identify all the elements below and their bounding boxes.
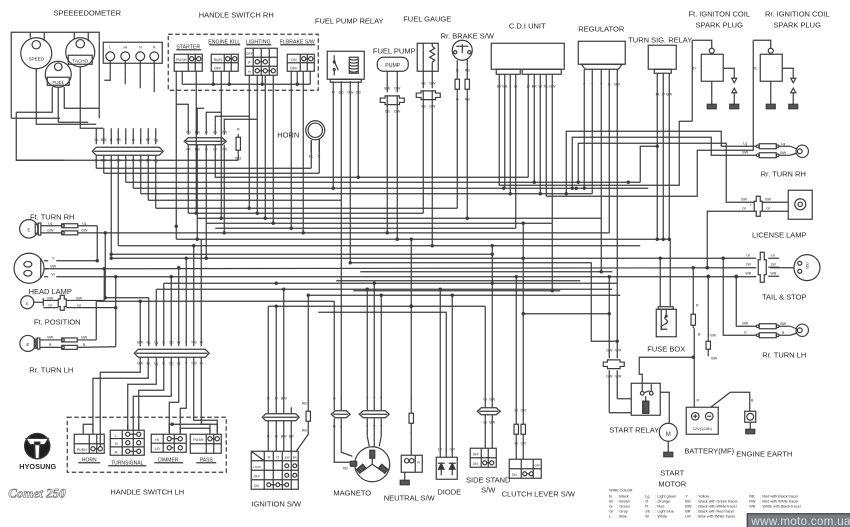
- speedometer enclosure: [11, 32, 99, 118]
- wire handle switch RH internal bus: [181, 71, 183, 84]
- wire diode LY feed: [439, 289, 441, 457]
- vertical main L: [140, 155, 142, 194]
- wire FPR DB drop: [357, 81, 359, 177]
- svg-text:L: L: [109, 45, 111, 49]
- connector front position: [58, 295, 66, 310]
- switch DIMMER: [151, 434, 186, 452]
- wire GWWR GW bus: [523, 313, 609, 315]
- svg-text:OFF: OFF: [254, 474, 260, 478]
- wire start relay conns: [617, 398, 631, 400]
- svg-text:SPEED: SPEED: [28, 56, 44, 61]
- svg-text:S/W: S/W: [481, 485, 496, 494]
- wire fuse feed 1: [659, 258, 661, 307]
- wire fuel gauge GW drop: [431, 100, 433, 246]
- svg-text:NEUTRAL S/W: NEUTRAL S/W: [384, 493, 436, 502]
- switch PASS: [190, 434, 221, 453]
- wire TSR TA drop: [656, 73, 658, 239]
- wire magneto Y3 riser: [380, 295, 382, 410]
- svg-text:YB: YB: [116, 138, 121, 142]
- wire fuse feed 2: [669, 239, 671, 307]
- wire handle RH starter drop 176: [175, 71, 177, 239]
- svg-text:RB: RB: [465, 68, 471, 72]
- wire bus y182 to y146 riser: [640, 146, 657, 182]
- battery: [686, 407, 718, 434]
- svg-text:BW: BW: [765, 197, 771, 201]
- svg-text:+: +: [750, 203, 752, 207]
- handle switch RH dashed enclosure: [168, 34, 318, 90]
- turn signal relay: [648, 45, 676, 69]
- svg-text:HEAD LAMP: HEAD LAMP: [29, 287, 72, 296]
- connector rear turn LH left terminals: [62, 338, 78, 342]
- wire bus y297.5 BL: [105, 297, 149, 299]
- svg-text:HANDLE SWITCH RH: HANDLE SWITCH RH: [199, 10, 274, 19]
- svg-text:BATTERY(MF): BATTERY(MF): [684, 446, 734, 455]
- svg-text:BW: BW: [685, 504, 692, 508]
- svg-text:G: G: [609, 504, 612, 508]
- svg-text:Rr. BRAKE S/W: Rr. BRAKE S/W: [441, 31, 495, 40]
- svg-text:TURN SIG. RELAY: TURN SIG. RELAY: [628, 35, 692, 44]
- svg-text:BW: BW: [741, 197, 747, 201]
- svg-text:START: START: [660, 468, 684, 477]
- wire fuel pump drops: [386, 71, 388, 92]
- svg-text:W: W: [52, 272, 56, 276]
- wire magneto Y2 riser: [373, 283, 375, 410]
- ignition coil Ft: [701, 54, 723, 81]
- svg-text:WB: WB: [770, 271, 776, 275]
- wire bus y306: [268, 305, 485, 307]
- wire ignition R feed: [267, 306, 269, 413]
- wire CDI Gr drop: [515, 74, 517, 228]
- wire fuse BW2 top: [707, 276, 709, 338]
- fuel pump relay: [327, 51, 364, 79]
- wire rear brake drops: [456, 60, 458, 76]
- svg-text:Comet 250: Comet 250: [8, 485, 66, 500]
- svg-text:: Black with Red tracer: : Black with Red tracer: [696, 509, 735, 513]
- wire bundle above main connector 18P: [95, 128, 97, 144]
- svg-text:ON: ON: [473, 462, 478, 466]
- wire ignition BW feed: [283, 289, 285, 413]
- svg-text:LW: LW: [771, 262, 777, 266]
- wire speedometer internal harness: [29, 32, 31, 38]
- wire coil Ft primary: [692, 40, 712, 48]
- svg-text:BW: BW: [47, 296, 53, 300]
- wire ignition O feed: [275, 306, 277, 413]
- svg-text:LW: LW: [685, 514, 691, 518]
- svg-text:HYOSUNG: HYOSUNG: [19, 462, 56, 471]
- wire strip W riser: [178, 268, 180, 347]
- svg-text:E: E: [26, 301, 29, 306]
- svg-text:www.moto.com.ua: www.moto.com.ua: [750, 514, 850, 527]
- wire strip BL to horn LH: [93, 357, 148, 432]
- resistor inline neutral: [410, 410, 412, 413]
- svg-text:REGULATOR: REGULATOR: [578, 24, 625, 33]
- wire bus y208 Lg brake: [156, 207, 458, 209]
- wire regulator R drop: [608, 69, 610, 233]
- gauge TACHO: [66, 38, 95, 67]
- svg-text:G: G: [333, 424, 336, 428]
- vertical main Lg: [155, 155, 157, 208]
- svg-text:HANDLE SWITCH LH: HANDLE SWITCH LH: [110, 487, 184, 496]
- wire strip W to dimmer HI: [169, 357, 179, 432]
- regulator: [578, 41, 625, 64]
- svg-text:RW: RW: [749, 499, 756, 503]
- svg-text:BG: BG: [685, 499, 691, 503]
- svg-text:: Light green: : Light green: [655, 494, 676, 498]
- wire fuse RW top: [692, 268, 694, 312]
- wire bus y160 R-resistor: [16, 159, 238, 161]
- svg-text:BR: BR: [293, 455, 297, 459]
- wire handle RH brake drop 291: [290, 71, 292, 228]
- svg-text:RB: RB: [302, 428, 308, 432]
- fuse inline clutch 2: [522, 421, 524, 424]
- connector 18P main: [92, 147, 163, 155]
- svg-text:Ft. TURN RH: Ft. TURN RH: [30, 212, 74, 221]
- wire strip BL riser: [148, 298, 150, 347]
- wire neutral L riser: [410, 239, 412, 410]
- svg-text:: Yellow: : Yellow: [696, 494, 709, 498]
- svg-text:Lg: Lg: [48, 221, 52, 225]
- svg-text:BW: BW: [489, 420, 495, 424]
- wire CDI Ll drop: [527, 74, 529, 177]
- wire fuel gauge YB drop: [422, 100, 424, 213]
- svg-text:IGNITION S/W: IGNITION S/W: [251, 499, 302, 508]
- wire strip B to turnsignal R: [139, 357, 164, 430]
- wire tail lamp Gr bus y258: [111, 257, 756, 259]
- svg-text:: Black with White tracer: : Black with White tracer: [696, 504, 737, 508]
- ground Ft spark plug: [730, 104, 739, 109]
- svg-text:: Red: : Red: [655, 504, 664, 508]
- watermark bar: [747, 514, 850, 527]
- gauge SPEED: [21, 38, 52, 69]
- vertical main Gr: [95, 155, 97, 168]
- svg-text:Rr. IGNITION COIL: Rr. IGNITION COIL: [765, 9, 830, 18]
- svg-text:R: R: [237, 127, 240, 131]
- wire rr turn LH BW riser: [95, 301, 97, 340]
- svg-text:Rr. TURN LH: Rr. TURN LH: [29, 365, 73, 374]
- wire bus y200 BF magneto-L: [148, 200, 341, 410]
- wire start motor to relay: [660, 392, 669, 423]
- svg-text:GW: GW: [429, 81, 436, 85]
- svg-text:ON: ON: [254, 484, 259, 488]
- wire coil Rr secondary: [782, 68, 793, 78]
- svg-text:PUSH: PUSH: [176, 58, 187, 62]
- svg-text:START RELAY: START RELAY: [609, 425, 659, 434]
- wire bus y193.5 L: [141, 193, 593, 195]
- wire side stand Gr feed: [484, 306, 486, 407]
- connector fuel gauge 2P: [416, 91, 440, 100]
- wire coil Ft secondary: [723, 68, 734, 78]
- switch STARTER contacts: [174, 54, 202, 71]
- wire strip Y to dimmer: [180, 357, 186, 432]
- bulb rear turn RH: [796, 145, 808, 157]
- svg-text:O: O: [645, 499, 648, 503]
- neutral switch: [401, 455, 422, 472]
- wire CDI RL to coil Rr: [546, 40, 753, 196]
- wire tail plug to bulb: [770, 267, 794, 269]
- vertical main BW: [103, 155, 105, 173]
- clutch lever switch: [509, 459, 541, 478]
- svg-text:E: E: [27, 227, 30, 232]
- bulb front position: [21, 296, 34, 309]
- wire handle RH lighting drop 265: [264, 75, 266, 218]
- svg-text:BW: BW: [50, 264, 56, 268]
- wire ignition RB feed: [307, 295, 309, 408]
- svg-text:Lg: Lg: [82, 221, 86, 225]
- svg-text:PUSH: PUSH: [193, 438, 203, 442]
- wire regulator Y3 extension: [600, 218, 602, 272]
- wire ft turn RH riser: [104, 233, 106, 298]
- svg-text:SOD: SOD: [805, 262, 809, 270]
- svg-text:: Black: : Black: [617, 494, 628, 498]
- wire TSR BW drop: [668, 73, 670, 239]
- bulb tail and stop: [794, 255, 820, 281]
- svg-text:: Green: : Green: [617, 504, 630, 508]
- svg-text:HORN: HORN: [277, 130, 299, 139]
- svg-text:BW: BW: [780, 151, 786, 155]
- svg-text:Ft. IGNITON COIL: Ft. IGNITON COIL: [688, 9, 750, 18]
- bulb rear turn LH: [796, 324, 808, 336]
- svg-text:GW: GW: [81, 228, 88, 232]
- svg-text:L: L: [115, 434, 117, 438]
- connector license lamp: [754, 196, 762, 216]
- wire fuse BW2 bottom: [707, 352, 709, 356]
- wire regulator Y3 drop: [600, 69, 602, 218]
- wire bus y245.5 YB: [118, 245, 640, 247]
- svg-text:R: R: [267, 434, 270, 438]
- svg-text:O: O: [275, 434, 278, 438]
- svg-text:WR: WR: [615, 374, 621, 378]
- wire bus y218 regulator: [197, 217, 601, 219]
- svg-text:: White with Black tracer: : White with Black tracer: [760, 504, 801, 508]
- svg-text:BW: BW: [285, 455, 290, 459]
- wire front turn RH: [41, 225, 61, 227]
- wire rr turn LH BW feed: [736, 276, 756, 326]
- ignition switch: [251, 451, 298, 489]
- svg-text:W: W: [645, 514, 649, 518]
- horn: [306, 121, 325, 140]
- wire conn10P YW drop: [223, 145, 225, 233]
- wire bus y301 BW: [96, 300, 334, 302]
- vertical main BF: [147, 155, 149, 200]
- svg-text:Sb: Sb: [645, 509, 650, 513]
- wire bus y213 fuel gauge YB: [188, 212, 423, 214]
- wire FPR BG drop: [340, 81, 342, 200]
- start motor: [659, 423, 677, 441]
- diode: [436, 457, 457, 479]
- gauge FUEL: [45, 61, 71, 87]
- wire rear turn LH left: [40, 339, 61, 341]
- svg-text:FUEL GAUGE: FUEL GAUGE: [403, 14, 451, 23]
- svg-text:SPEEEEDOMETER: SPEEEEDOMETER: [53, 8, 121, 17]
- svg-text:RB: RB: [302, 401, 308, 405]
- svg-text:: Blue with White tracer: : Blue with White tracer: [696, 514, 736, 518]
- connector fuel pump 2P: [380, 96, 404, 105]
- svg-text:BW: BW: [711, 356, 717, 360]
- svg-text:MAGNETO: MAGNETO: [333, 488, 371, 497]
- wire front position leads: [43, 299, 58, 301]
- wire side stand BW feed: [491, 246, 493, 408]
- wire fuel pump DW drop: [396, 105, 398, 239]
- ground Rr spark plug: [789, 104, 798, 109]
- switch HORN LH: [74, 434, 104, 453]
- wire GWWR riser WR: [616, 283, 618, 358]
- svg-text:BW: BW: [710, 333, 716, 337]
- wire TSR O drop: [662, 73, 664, 239]
- wire regulator Y1 drop: [583, 69, 585, 188]
- wire bus y254 filler: [111, 253, 492, 255]
- wire FPR GW drop: [349, 81, 351, 263]
- svg-text:ON: ON: [512, 473, 517, 477]
- spark gap Rr: [791, 78, 796, 83]
- engine earth: [745, 411, 756, 422]
- svg-text:: Blue: : Blue: [617, 514, 627, 518]
- svg-text:OFF: OFF: [473, 452, 479, 456]
- connector front turn RH terminals: [62, 224, 78, 228]
- wire rear brake G drop: [456, 92, 458, 208]
- wire start relay to fuse: [639, 357, 693, 384]
- wire strip O riser: [200, 239, 202, 346]
- svg-text:C.D.I UNIT: C.D.I UNIT: [509, 21, 546, 30]
- svg-text:R: R: [115, 450, 118, 454]
- wire bus y280.5 filler: [336, 280, 580, 282]
- wire strip YW to pass: [194, 357, 218, 432]
- svg-text:PUMP: PUMP: [385, 63, 401, 69]
- wire fuel pump DB drop: [386, 105, 388, 233]
- wire speedometer harness to main connector: [16, 112, 64, 160]
- connector rear turn LH: [759, 324, 776, 329]
- svg-text:: Orange: : Orange: [655, 499, 670, 503]
- svg-text:Lg: Lg: [645, 494, 649, 498]
- svg-text:SPARK PLUG: SPARK PLUG: [696, 20, 744, 29]
- wire diode GR feed: [451, 295, 453, 457]
- wire handle RH lighting drop 273: [272, 75, 274, 223]
- svg-text:DIODE: DIODE: [437, 487, 461, 496]
- svg-text:ENGINE EARTH: ENGINE EARTH: [736, 449, 792, 458]
- ground neutral switch: [400, 480, 409, 485]
- wire bus y262.5 filler: [350, 263, 617, 342]
- wire magneto Y1 riser: [366, 289, 368, 410]
- wire handle RH to connector 10P: [176, 104, 188, 122]
- svg-text:KB: KB: [343, 466, 348, 470]
- svg-text:Gr: Gr: [609, 509, 614, 513]
- connector side stand: [477, 408, 500, 415]
- wire strip Sb to turnsignal: [133, 357, 171, 430]
- svg-text:BW: BW: [101, 138, 107, 142]
- svg-text:G: G: [456, 68, 459, 72]
- wire strip O to pass: [201, 357, 210, 432]
- wire handle RH starter drop 196: [195, 71, 197, 213]
- ground engine earth: [746, 429, 755, 434]
- wire start motor ground: [667, 441, 669, 452]
- wire fuel gauge drops: [422, 71, 424, 88]
- fuse box: [656, 309, 676, 337]
- wire CDI W drop: [539, 74, 541, 194]
- svg-text:DW: DW: [394, 86, 401, 90]
- CDI unit: [491, 43, 564, 69]
- wire battery minus to engine earth: [711, 392, 750, 411]
- wire conn10P YR drop: [187, 145, 189, 214]
- svg-text:L: L: [140, 138, 142, 142]
- svg-text:BR: BR: [289, 434, 294, 438]
- fuel gauge sender: [417, 43, 438, 71]
- svg-text:: Red with White tracer: : Red with White tracer: [760, 499, 799, 503]
- wire bus y177 DB: [215, 145, 528, 178]
- wire speedometer connector drops: [109, 61, 111, 71]
- wire license BW feed from harness: [578, 143, 754, 202]
- rear brake switch: [452, 40, 472, 60]
- wire horn B drop: [318, 139, 320, 173]
- wire bus y271.5 filler: [360, 271, 612, 273]
- svg-text:GW: GW: [606, 374, 613, 378]
- svg-text:BY: BY: [692, 66, 697, 70]
- svg-text:H: H: [248, 70, 251, 74]
- vertical main Y: [125, 155, 127, 182]
- connector magneto 3P: [359, 411, 389, 418]
- svg-text:O: O: [132, 138, 135, 142]
- svg-text:TAIL & STOP: TAIL & STOP: [762, 292, 806, 301]
- switch ENGINE KILL contacts: [211, 54, 238, 71]
- svg-text:: White: : White: [655, 514, 667, 518]
- wire handle RH brake drop 303: [302, 71, 304, 233]
- wire CDI GW extension: [551, 223, 553, 291]
- bulb front turn RH: [20, 220, 38, 238]
- wire strip YW riser: [193, 246, 195, 347]
- svg-text:SIDE STAND: SIDE STAND: [466, 475, 511, 484]
- wire conn10P DB drop: [196, 145, 198, 240]
- svg-text:GW: GW: [47, 228, 54, 232]
- svg-text:Rr. TURN RH: Rr. TURN RH: [761, 169, 806, 178]
- svg-text:BW: BW: [742, 321, 748, 325]
- wire ignition below connector: [267, 421, 269, 452]
- wire bus y295: [308, 294, 620, 296]
- wire headlamp Y riser: [96, 226, 98, 261]
- svg-text:Lg: Lg: [154, 138, 158, 142]
- fuse inline clutch 1: [515, 421, 517, 424]
- wire bus y223 GW: [206, 222, 552, 224]
- side stand switch: [470, 448, 496, 467]
- ground Rr coil: [766, 104, 775, 109]
- wire CDI BY to coil Ft: [499, 74, 692, 185]
- wire conn10P O drop: [205, 145, 207, 259]
- svg-text:: Gray: : Gray: [617, 509, 627, 513]
- svg-text:Rr. TURN LH: Rr. TURN LH: [762, 350, 806, 359]
- wire ft position BW riser: [103, 269, 105, 301]
- wire magneto leads: [334, 430, 350, 462]
- svg-text:OFF: OFF: [290, 66, 298, 70]
- handle switch LH dashed enclosure: [67, 417, 226, 472]
- wire strip BW to horn LH: [100, 357, 140, 446]
- wire engine earth ground: [749, 422, 751, 429]
- svg-text:: Brown: : Brown: [617, 499, 630, 503]
- svg-text:Lg: Lg: [743, 141, 747, 145]
- wire strip Y riser: [185, 258, 187, 346]
- connector bottom 18P: [134, 349, 209, 357]
- ground Ft coil: [707, 104, 716, 109]
- wire riser 115.5: [115, 277, 117, 347]
- svg-text:FUEL PUMP: FUEL PUMP: [373, 46, 416, 55]
- spark gap Ft: [732, 78, 737, 83]
- vertical main YB: [117, 155, 119, 246]
- wire bus y290.5 filler: [353, 290, 560, 292]
- svg-text:R: R: [696, 303, 699, 307]
- svg-text:N: N: [115, 442, 118, 446]
- wire bus y188 BW turn: [133, 187, 648, 189]
- wire strip B riser: [163, 283, 165, 346]
- svg-text:WR: WR: [615, 348, 621, 352]
- wire GWWR riser GW: [608, 276, 610, 358]
- wire rear brake RB drop: [466, 92, 468, 218]
- ignition coil Rr: [760, 54, 782, 81]
